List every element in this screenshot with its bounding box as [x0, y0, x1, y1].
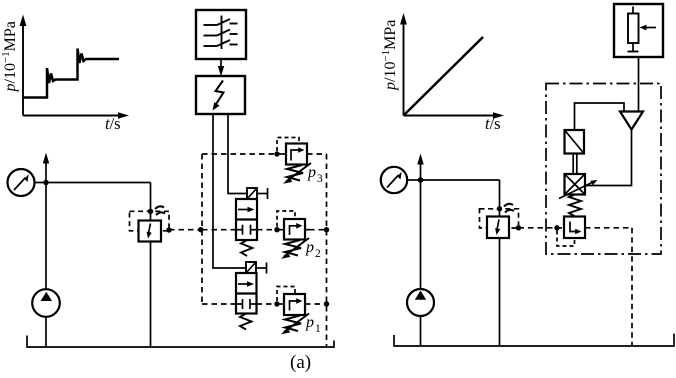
drain pilot line to tank [585, 228, 632, 346]
left graph x-axis [23, 112, 129, 119]
wire amplifier to valve V2 solenoid [213, 114, 246, 268]
left graph y label p/10-1MPa [0, 21, 19, 92]
relief valve p1 body [284, 294, 305, 315]
node RV1 pilot output [166, 227, 171, 232]
node at proportional valve pilot [554, 225, 559, 230]
svg-text:p: p [305, 239, 314, 256]
solenoid valve V2 solenoid coil [246, 262, 267, 274]
adjustable spring p1 [281, 314, 309, 335]
supply line arrow up right circuit [417, 154, 423, 181]
tank line left [27, 336, 334, 348]
pilot line p1 (bottom edge) [202, 303, 327, 305]
relief valve p3 body [286, 144, 307, 165]
caption (a) [290, 352, 311, 373]
command potentiometer box [614, 4, 663, 57]
pilot line p3 (top edge) [202, 153, 327, 155]
wire junction to relief valve RV2 [421, 179, 500, 181]
controller dash-dot enclosure [546, 84, 661, 255]
left graph y-axis [20, 15, 27, 116]
wire potentiometer to amplifier [638, 57, 640, 112]
svg-text:2: 2 [315, 248, 321, 260]
solenoid valve V1 body [236, 199, 257, 240]
pressure gauge G1 [8, 169, 47, 196]
node p1 pilot [274, 301, 329, 306]
pilot loop p1 [277, 287, 295, 302]
node junction at gauge right [418, 177, 424, 183]
proportional arrow across solenoid [559, 180, 598, 199]
solenoid valve V2 body [236, 273, 257, 314]
svg-text:p: p [305, 314, 314, 331]
node at dashed box left edge [198, 227, 203, 232]
relief valve RV1 body [139, 221, 162, 242]
adjustable spring p3 [283, 163, 311, 184]
wire relief valve RV1 vertical run [150, 183, 152, 348]
wire pump2 to junction [420, 180, 422, 289]
program switch box U1 [196, 10, 246, 59]
wire pump to tank [45, 317, 47, 347]
node RV2 pilot output [516, 225, 521, 230]
proportional relief valve body [564, 217, 585, 239]
pilot line RV1 to valve group [169, 229, 202, 231]
right graph x label t/s [485, 114, 501, 133]
mechanical feedback link [573, 154, 577, 175]
relief valve RV2 adjust symbol [504, 204, 514, 213]
supply line arrow up [43, 153, 49, 183]
node p2 pilot [274, 227, 329, 232]
feedback wire to amplifier [575, 103, 625, 130]
left graph x label t/s [105, 114, 121, 133]
valve group dashed enclosure left edge [201, 154, 203, 304]
right graph ramp pressure curve [404, 37, 484, 116]
label p1 [305, 314, 321, 335]
relief valve RV1 pilot dashed box [130, 211, 170, 231]
pressure gauge G2 [381, 167, 421, 193]
svg-text:p: p [307, 164, 316, 181]
amplifier triangle [620, 112, 643, 130]
pump P1 [32, 289, 60, 317]
relief valve p2 body [284, 219, 305, 240]
amplifier box U2 with lightning bolt [196, 76, 245, 114]
wire junction to relief valve RV1 [46, 182, 151, 184]
left graph staircase pressure curve [23, 49, 119, 98]
right graph y label p/10-1MPa [380, 20, 399, 91]
right graph y-axis [400, 13, 407, 116]
svg-text:1: 1 [315, 323, 321, 335]
label p3 [307, 164, 323, 185]
svg-text:t/s: t/s [485, 114, 501, 133]
wire pump to junction [45, 183, 47, 290]
displacement transducer box [565, 130, 585, 154]
svg-text:3: 3 [317, 173, 323, 185]
relief valve RV2 body [487, 217, 509, 239]
solenoid valve V1 solenoid coil [247, 188, 268, 199]
relief valve RV1 adjust symbol [155, 206, 165, 215]
tank line right [394, 334, 674, 347]
spring of valve V2 [240, 314, 252, 330]
right graph x-axis [404, 112, 505, 119]
wire amplifier to valve V1 solenoid [228, 114, 247, 194]
svg-text:t/s: t/s [105, 114, 121, 133]
svg-text:(a): (a) [290, 352, 311, 373]
node on RV2 pilot [497, 206, 502, 211]
relief valve RV2 pilot dashed box [480, 209, 519, 228]
node p3 pilot [274, 151, 286, 156]
valve group dashed enclosure right edge [326, 154, 328, 347]
pilot line p2 (middle) [202, 229, 327, 231]
label p2 [305, 239, 321, 260]
pump P2 [407, 289, 434, 316]
arrow from switch box to amplifier [218, 59, 224, 77]
adjustable spring p2 [281, 238, 309, 259]
wire pump2 to tank [420, 316, 422, 346]
pilot loop p2 [277, 211, 295, 227]
node on RV1 pilot [148, 209, 153, 214]
pilot under-loop to proportional valve bottom [557, 231, 575, 247]
wire relief valve RV2 vertical run [499, 180, 501, 346]
proportional solenoid box [565, 174, 586, 195]
pilot line RV2 to proportional valve [519, 227, 565, 229]
spring of valve V1 [241, 240, 253, 256]
spring of proportional valve [569, 195, 581, 217]
pilot loop p3 [277, 138, 299, 152]
amplifier output wire [585, 130, 632, 186]
node junction at gauge [43, 180, 49, 186]
